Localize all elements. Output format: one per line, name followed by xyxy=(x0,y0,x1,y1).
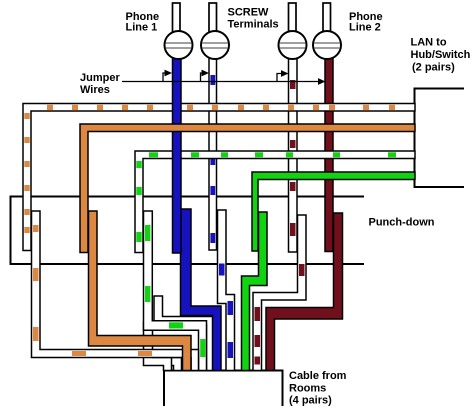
svg-text:SCREW: SCREW xyxy=(228,7,270,19)
dashes on room white-orange xyxy=(33,225,152,356)
room wire D (white, bottom-left of cable box) xyxy=(144,322,172,371)
svg-text:(4 pairs): (4 pairs) xyxy=(289,395,332,407)
room wire orange xyxy=(89,211,192,371)
wire green bus (to LAN) xyxy=(252,172,415,251)
svg-text:Line 1: Line 1 xyxy=(126,22,158,34)
room wire blue xyxy=(181,209,222,371)
jumper-wires arrow assembly xyxy=(122,73,319,82)
room wire A (white, elbow to cable box) xyxy=(154,296,214,371)
svg-text:(2 pairs): (2 pairs) xyxy=(412,62,455,74)
room wire white-orange xyxy=(32,211,199,371)
svg-text:Cable from: Cable from xyxy=(289,370,347,382)
room wire white-brown xyxy=(253,215,306,371)
room wire E (white, step into cable box) xyxy=(166,358,182,371)
screw terminal circle 1 xyxy=(165,31,193,59)
screw terminal circle 2 xyxy=(201,31,229,59)
cable-from-rooms box xyxy=(164,371,283,407)
screw terminal circle 4 xyxy=(313,31,341,59)
svg-text:Terminals: Terminals xyxy=(228,18,279,30)
room wire green xyxy=(242,212,268,371)
jumper wire brown (phone line 2) xyxy=(325,58,333,252)
jumper wire white-brown xyxy=(289,58,298,252)
svg-text:LAN to: LAN to xyxy=(411,37,447,49)
dashes on white-orange bus vertical xyxy=(24,113,29,119)
dashes on white-orange bus horizontal xyxy=(24,105,395,233)
wire white-orange bus (to LAN) xyxy=(23,104,415,251)
room wire white-green xyxy=(144,211,207,371)
dashes on white-green bus xyxy=(136,152,396,242)
punch-down block outline xyxy=(11,197,365,265)
dashes on room white-brown xyxy=(255,264,305,365)
room wire white-blue xyxy=(218,210,235,371)
screw terminal stems xyxy=(173,3,331,32)
wire white-green bus (to LAN) xyxy=(135,151,415,253)
dashes on room white-green xyxy=(145,225,205,357)
wire orange bus (to LAN, drawn on top) xyxy=(80,124,415,253)
jumper wire white-blue xyxy=(209,58,217,250)
svg-text:Hub/Switch: Hub/Switch xyxy=(411,49,471,61)
jumper wire blue (phone line 1) xyxy=(173,58,182,253)
svg-text:Wires: Wires xyxy=(80,84,110,96)
dashes on jumper white-blue xyxy=(210,75,215,243)
dashes on jumper white-brown xyxy=(290,80,296,236)
LAN hub/switch box xyxy=(415,89,465,188)
svg-text:Jumper: Jumper xyxy=(80,72,120,84)
svg-text:Punch-down: Punch-down xyxy=(369,217,435,229)
room wire brown xyxy=(266,213,343,371)
dashes on room white-blue xyxy=(219,264,233,359)
svg-text:Line 2: Line 2 xyxy=(349,22,381,34)
svg-text:Rooms: Rooms xyxy=(289,383,326,395)
screw terminal circle 3 xyxy=(279,31,307,59)
